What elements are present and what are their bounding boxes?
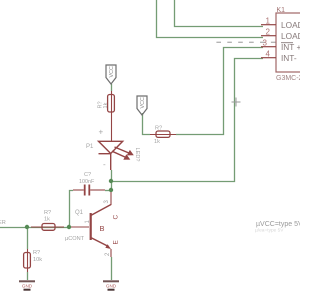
svg-text:B: B — [100, 224, 105, 233]
svg-text:VCC: VCC — [140, 97, 146, 108]
svg-text:µCONT: µCONT — [65, 236, 85, 242]
svg-text:C?: C? — [84, 172, 91, 178]
svg-text:P1: P1 — [86, 144, 94, 150]
svg-text:1k: 1k — [154, 139, 160, 145]
svg-text:LED?: LED? — [134, 148, 140, 162]
svg-text:E: E — [113, 240, 120, 245]
svg-text:-: - — [103, 160, 106, 169]
svg-text:INT-: INT- — [281, 53, 297, 63]
svg-text:GND: GND — [22, 284, 33, 289]
svg-text:3: 3 — [263, 39, 268, 48]
svg-text:R?: R? — [33, 250, 40, 256]
svg-text:C: C — [113, 215, 120, 220]
svg-text:4: 4 — [266, 50, 271, 59]
svg-text:LOAD-: LOAD- — [281, 31, 300, 41]
svg-text:µ/ea=type 5V: µ/ea=type 5V — [255, 228, 284, 234]
svg-text:3: 3 — [104, 200, 110, 204]
svg-text:100nF: 100nF — [79, 179, 95, 185]
svg-text:1k: 1k — [44, 217, 50, 223]
svg-text:K1: K1 — [277, 7, 286, 14]
svg-text:Q1: Q1 — [75, 210, 84, 216]
svg-text:10k: 10k — [33, 257, 42, 263]
svg-text:VCC: VCC — [109, 66, 115, 77]
svg-text:1k: 1k — [103, 102, 109, 108]
svg-text:2: 2 — [105, 252, 111, 256]
svg-text:LOAD+: LOAD+ — [281, 20, 300, 30]
svg-text:1: 1 — [266, 17, 271, 26]
svg-text:2: 2 — [266, 28, 271, 37]
svg-text:G3MC-2: G3MC-2 — [276, 75, 300, 82]
svg-text:+: + — [99, 128, 104, 137]
svg-text:INT +: INT + — [281, 42, 300, 52]
svg-text:GND: GND — [106, 284, 117, 289]
svg-text:R?: R? — [44, 210, 51, 216]
svg-text:µVCC=type 5VD: µVCC=type 5VD — [256, 221, 300, 228]
svg-text:ER: ER — [0, 220, 6, 226]
